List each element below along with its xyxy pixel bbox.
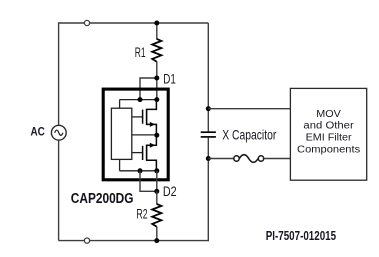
wire inner bottom rail to node D2 (straight): [156, 171, 158, 192]
svg-text:PI-7507-012015: PI-7507-012015: [266, 229, 336, 243]
node D2 junction dot: [154, 189, 159, 194]
svg-text:and Other: and Other: [303, 121, 354, 132]
wire mid vertical top (top rail to R1): [156, 23, 158, 40]
wire bottom rail: [59, 240, 209, 242]
resistor R2: [152, 204, 161, 227]
junction dot inner top rail left: [138, 97, 143, 102]
IC package box CAP200DG: [103, 89, 168, 180]
svg-text:AC: AC: [31, 126, 46, 139]
wire upper tap to MOV box: [208, 108, 290, 110]
fuse F1 wave: [239, 155, 258, 163]
junction dot right rail lower tap: [206, 156, 211, 161]
wire middle node to control block: [132, 134, 157, 136]
junction dot inner top rail right: [154, 97, 159, 102]
capacitor CX top plate: [201, 131, 216, 133]
junction dot middle node: [154, 133, 159, 138]
wire L-branch bottom rail to node D2: [140, 171, 157, 192]
wire stub control block to inner bottom rail: [119, 159, 121, 170]
junction dot inner bottom rail left: [138, 168, 143, 173]
wire inner bottom rail: [120, 170, 157, 172]
wire stub inner top rail to control block: [119, 100, 121, 109]
wire R1 to node D1: [156, 62, 158, 79]
fuse F1 left circle: [234, 156, 239, 161]
wire lower tap to fuse: [208, 158, 234, 160]
fuse F1 right circle: [258, 156, 263, 161]
wire left rail upper: [58, 22, 60, 125]
capacitor CX bottom plate: [201, 136, 216, 138]
svg-text:D1: D1: [163, 72, 176, 87]
wire fuse to MOV box: [264, 158, 291, 160]
junction dot R1 top rail: [154, 21, 159, 26]
wire gate top MOSFET: [132, 116, 143, 118]
wire node D2 to R2: [156, 191, 158, 204]
transistor Q1 (top MOSFET): [143, 100, 157, 136]
junction dot R2 bottom rail: [154, 238, 159, 243]
wire left rail lower: [58, 140, 60, 241]
resistor R1: [152, 39, 161, 62]
terminal bottom-left open circle: [84, 238, 89, 243]
wire R2 to bottom rail: [156, 227, 158, 241]
svg-text:D2: D2: [163, 184, 177, 199]
svg-text:X Capacitor: X Capacitor: [222, 128, 276, 143]
wire right rail upper: [207, 23, 209, 132]
svg-text:CAP200DG: CAP200DG: [71, 191, 134, 207]
junction dot right rail upper tap: [206, 106, 211, 111]
wire right rail lower: [207, 138, 209, 242]
junction dot inner bottom rail right: [154, 168, 159, 173]
wire node D1 L-branch to control rail: [140, 78, 157, 100]
svg-text:Components: Components: [297, 144, 360, 155]
wire node D1 into box (straight drain line): [156, 78, 158, 100]
wire top rail: [59, 22, 209, 24]
transistor Q2 (bottom MOSFET): [143, 135, 157, 171]
control block U1 rectangle: [111, 108, 131, 159]
svg-text:R1: R1: [135, 45, 146, 60]
wire gate bottom MOSFET: [132, 152, 143, 154]
node D1 junction dot: [154, 76, 159, 81]
svg-text:MOV: MOV: [316, 109, 341, 120]
terminal top-left open circle: [84, 20, 89, 25]
svg-text:EMI Filter: EMI Filter: [306, 133, 353, 144]
wire inner top rail: [120, 99, 157, 101]
MOV / EMI filter block box: [290, 88, 366, 180]
AC source V1: [51, 125, 66, 140]
svg-text:R2: R2: [136, 206, 147, 221]
